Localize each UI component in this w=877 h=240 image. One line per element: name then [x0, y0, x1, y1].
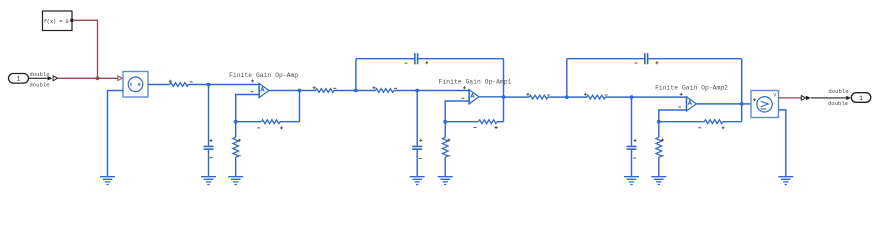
wire node B down to feedback: [299, 91, 301, 122]
wire R3 to node E: [394, 90, 417, 92]
label + of C3: [634, 139, 637, 142]
wire node H up to bridge cap 2: [566, 59, 568, 97]
label + of Rg2: [447, 139, 450, 142]
wire solver block to node: [73, 20, 97, 78]
node K junction: [740, 102, 744, 106]
svg-text:1: 1: [17, 76, 21, 83]
wire node E to op-amp U2 + input: [417, 90, 469, 92]
label - of R1: [190, 81, 193, 83]
label + input op-amp U1: [251, 79, 254, 82]
svg-text:double: double: [29, 71, 49, 78]
label - of Rf1: [257, 127, 260, 129]
resistor R3 (series): [375, 89, 394, 93]
controlled voltage source block: [123, 72, 148, 98]
capacitor C1 (to ground): [204, 146, 214, 149]
wire Rg2 to ground: [444, 157, 446, 176]
wire Rg1 to ground: [235, 157, 237, 176]
feedback resistor Rf2: [479, 120, 498, 124]
bridge capacitor Cb1: [415, 53, 418, 64]
wire source minus port to ground: [108, 91, 124, 177]
label + of Rf1: [280, 126, 283, 129]
input port In1 (oval '1'): [9, 74, 29, 84]
svg-text:double: double: [29, 82, 49, 89]
label - of R5: [605, 94, 608, 96]
physical signal wire sensor to converter: [779, 97, 802, 99]
label + of R1: [169, 80, 172, 83]
op-amp U2: [469, 89, 479, 104]
svg-text:f(x) = 0: f(x) = 0: [44, 19, 69, 25]
wire feedback left lead: [236, 121, 262, 123]
ground (below Rg1): [228, 177, 243, 185]
ground (below C3): [624, 177, 639, 185]
wire bridge cap 2 left lead: [567, 58, 645, 60]
wire bridge cap right lead: [418, 58, 504, 60]
wire node L to Rg3: [658, 122, 660, 138]
label - input op-amp U1: [250, 91, 253, 93]
wire R4 to node H: [548, 96, 567, 98]
wire node F down to feedback: [503, 97, 505, 122]
arrowhead into Out1: [846, 96, 851, 100]
label - of R3: [394, 87, 397, 89]
PS-Simulink converter (open triangle): [801, 96, 805, 101]
bridge capacitor Cb2: [645, 53, 648, 64]
wire bridge cap left lead: [356, 58, 415, 60]
label - of Cb2: [635, 62, 638, 64]
arrowhead out of converter: [806, 96, 811, 100]
node E junction: [415, 89, 419, 93]
ground (below Rg2): [438, 177, 453, 185]
label + input op-amp U2: [463, 86, 466, 89]
node F junction: [502, 95, 506, 99]
label - of C1: [210, 157, 213, 159]
wire node E down to C2: [416, 91, 418, 146]
node B junction: [298, 89, 302, 93]
resistor Rg1 (to ground): [233, 137, 239, 157]
wire U3 output to node K: [696, 103, 741, 105]
label + of R5: [584, 93, 587, 96]
wire node J to op-amp U3 + input: [632, 96, 687, 98]
resistor R5 (series): [587, 95, 606, 99]
wire node A down to C1: [208, 85, 210, 146]
wire Rf2 right lead: [497, 121, 504, 123]
capacitor C3 (to ground): [627, 146, 637, 149]
label - of R2: [333, 87, 336, 89]
ground (below sensor): [778, 177, 793, 185]
node G junction: [443, 120, 447, 124]
feedback resistor Rf3: [704, 120, 723, 124]
label + of R3: [373, 86, 376, 89]
wire node K down to feedback: [741, 104, 743, 122]
node L junction: [657, 120, 661, 124]
wire node B to R2: [300, 90, 316, 92]
svg-text:double: double: [828, 88, 848, 95]
wire bridge cap 2 right lead: [648, 58, 742, 60]
resistor R4 (series): [529, 95, 548, 99]
wire In1 to converter: [29, 77, 48, 79]
node H junction: [565, 95, 569, 99]
arrowhead into converter: [48, 76, 53, 80]
wire R2 to node D: [334, 90, 356, 92]
wire source plus port to R1: [148, 84, 170, 86]
resistor R1 (series): [170, 83, 189, 87]
resistor R2 (series): [316, 89, 335, 93]
svg-text:Finite Gain Op-Amp: Finite Gain Op-Amp: [229, 72, 298, 79]
wire node F to R4: [504, 96, 530, 98]
label + of Rg3: [661, 139, 664, 142]
wire C1 to ground: [208, 150, 210, 177]
wire Rf3 right lead: [723, 121, 742, 123]
wire node H to R5: [567, 96, 587, 98]
ground (below voltage source): [100, 177, 115, 185]
label - of Cb1: [405, 62, 408, 64]
label + of C1: [210, 139, 213, 142]
wire C3 to ground: [631, 150, 633, 177]
label - input op-amp U2: [461, 97, 464, 99]
wire R1 to node A: [188, 84, 209, 86]
wire feedback right lead: [280, 121, 300, 123]
wire U1 - input: [236, 95, 259, 122]
resistor Rg3 (to ground): [656, 137, 662, 157]
label + input op-amp U3: [680, 93, 683, 96]
svg-text:V: V: [773, 93, 776, 99]
solver configuration block f(x)=0: [43, 11, 73, 31]
wire node D up to bridge cap: [355, 59, 357, 91]
node C junction: [234, 120, 238, 124]
wire node C to Rg1: [235, 122, 237, 138]
wire U1 output to node B: [269, 90, 300, 92]
svg-text:Finite Gain Op-Amp2: Finite Gain Op-Amp2: [655, 84, 728, 91]
wire U2 output to node F: [479, 96, 504, 98]
svg-text:1: 1: [859, 95, 863, 102]
wire U3 - input: [659, 110, 687, 122]
wire converter to Out1: [811, 97, 846, 99]
label + of Rf2: [495, 126, 498, 129]
wire Rf2 left lead: [445, 121, 478, 123]
resistor Rg2 (to ground): [442, 137, 448, 157]
wire U2 - input: [445, 101, 469, 122]
wire node K to voltage sensor: [742, 103, 751, 105]
label + of C2: [419, 139, 422, 142]
wire bridge cap 2 down to node K: [741, 59, 743, 104]
wire node J down to C3: [631, 97, 633, 146]
svg-text:double: double: [828, 100, 848, 107]
Simulink-PS converter (open triangle): [53, 76, 57, 81]
label - of C2: [419, 158, 422, 160]
node J junction: [630, 95, 634, 99]
junction node (physical signal): [96, 76, 100, 80]
label - input op-amp U3: [678, 106, 681, 108]
wire Rf3 left lead: [659, 121, 705, 123]
label - of Rg3: [661, 155, 664, 157]
wire C2 to ground: [416, 150, 418, 177]
label - of R4: [547, 94, 550, 96]
wire Rg3 to ground: [658, 157, 660, 176]
open arrowhead into voltage source: [118, 76, 122, 81]
label + of Rf3: [722, 126, 725, 129]
output port Out1 (oval '1'): [851, 93, 871, 103]
label - of Rg1: [238, 155, 241, 157]
label + of R4: [526, 93, 529, 96]
wire bridge cap down to node F: [503, 59, 505, 97]
label + of Cb2: [655, 61, 658, 64]
feedback resistor Rf1: [262, 120, 281, 124]
label - of Rf3: [698, 127, 701, 129]
wire node A to op-amp + input: [209, 84, 260, 86]
op-amp U1: [259, 83, 269, 98]
label - of Rg2: [447, 155, 450, 157]
physical signal wire converter to source: [58, 77, 118, 79]
node A junction: [207, 83, 211, 87]
wire node D to R3: [356, 90, 376, 92]
label + of Rg1: [238, 139, 241, 142]
capacitor C2 (to ground): [412, 146, 422, 149]
voltage sensor block: [751, 91, 779, 118]
svg-text:Finite Gain Op-Amp1: Finite Gain Op-Amp1: [439, 78, 512, 85]
wire sensor to ground: [779, 110, 786, 177]
label - of C3: [633, 157, 636, 159]
label + of R2: [313, 86, 316, 89]
op-amp U3: [687, 96, 697, 111]
label - of Rf2: [474, 127, 477, 129]
label + of Cb1: [425, 61, 428, 64]
ground (below Rg3): [651, 177, 666, 185]
ground (below C1): [201, 177, 216, 185]
ground (below C2): [410, 177, 425, 185]
node D junction: [354, 89, 358, 93]
wire node G to Rg2: [444, 122, 446, 138]
wire R5 to node J: [605, 96, 631, 98]
